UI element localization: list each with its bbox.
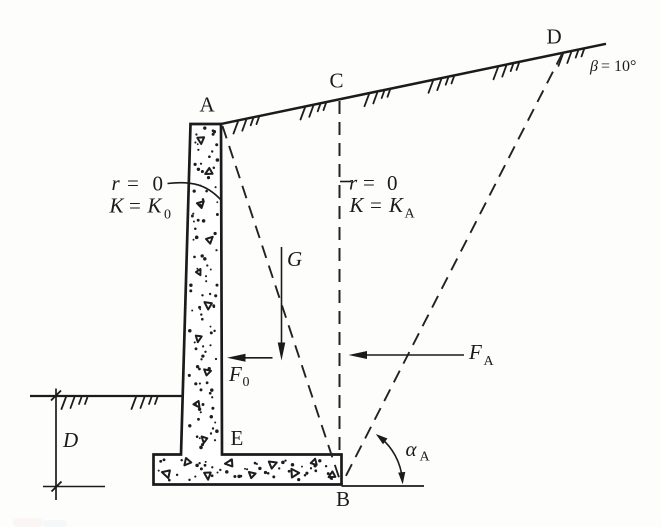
concrete stipple: wall stem dots	[188, 126, 219, 449]
concrete stipple: wall stem aggregate triangles	[193, 137, 212, 443]
svg-text:K: K	[147, 194, 163, 218]
svg-text:0: 0	[243, 375, 250, 390]
ground surface slope line A-D	[220, 44, 606, 124]
svg-text:K: K	[388, 193, 404, 217]
svg-text:D: D	[62, 428, 78, 452]
svg-text:G: G	[287, 247, 302, 271]
vertical dashed line C-B (r=0 plane)	[339, 101, 341, 453]
retaining wall outline (stem + footing)	[154, 124, 342, 485]
svg-text:r: r	[349, 171, 358, 195]
svg-text:K: K	[109, 194, 125, 218]
svg-text:E: E	[231, 426, 244, 450]
svg-text:=: =	[129, 194, 141, 218]
svg-text:A: A	[200, 93, 216, 117]
svg-text:0: 0	[164, 208, 171, 223]
concrete stipple: footing dots	[158, 458, 333, 481]
left ground hatch group 1	[62, 397, 88, 409]
arrowhead upper end of arc (points to failure plane)	[376, 434, 388, 444]
svg-text:K: K	[349, 193, 365, 217]
left ground surface line	[30, 395, 184, 397]
svg-text:=: =	[370, 193, 382, 217]
faint blue scan smudge bottom-left	[43, 520, 67, 527]
dimension bottom tick line	[43, 486, 105, 488]
arrowhead lower end of arc (points to ground line)	[398, 472, 405, 485]
svg-text:A: A	[420, 450, 431, 465]
svg-text:β: β	[589, 58, 598, 75]
weight force arrow G	[278, 247, 286, 361]
svg-text:α: α	[406, 437, 418, 461]
slope hatch group 4	[429, 76, 455, 92]
angle arc alpha_A at B	[378, 436, 402, 480]
concrete stipple: footing aggregate triangles	[162, 458, 336, 480]
svg-text:A: A	[484, 354, 495, 369]
dashed line D-B (active failure plane)	[342, 53, 563, 484]
at-rest force arrow F0	[227, 354, 273, 362]
left ground hatch group 2	[132, 397, 158, 409]
faint pink scan smudge bottom-left	[13, 518, 43, 527]
slope hatch group 5	[494, 63, 520, 79]
slope hatch group 1	[234, 117, 260, 133]
svg-text:0: 0	[387, 171, 398, 195]
svg-text:=: =	[127, 171, 139, 195]
slope hatch group 2	[301, 103, 327, 119]
svg-text:C: C	[330, 69, 344, 93]
tick from dashed line to r=0 label (right)	[340, 181, 351, 183]
leader line from K0 label to wall	[168, 183, 221, 200]
slope hatch group 6	[559, 49, 585, 65]
svg-text:B: B	[336, 487, 350, 511]
svg-text:=: =	[363, 171, 375, 195]
svg-text:r: r	[112, 171, 121, 195]
svg-text:F: F	[228, 362, 242, 386]
dashed line A-B (virtual back of wall)	[223, 126, 342, 484]
active force arrow FA	[349, 351, 465, 359]
svg-text:F: F	[468, 340, 482, 364]
slope hatch group 3	[365, 90, 391, 106]
svg-text:= 10°: = 10°	[601, 58, 636, 75]
embedment depth dimension line	[51, 389, 62, 501]
svg-text:0: 0	[153, 172, 164, 196]
svg-text:A: A	[405, 207, 416, 222]
svg-text:D: D	[547, 25, 562, 49]
ground line right of B	[342, 485, 425, 487]
